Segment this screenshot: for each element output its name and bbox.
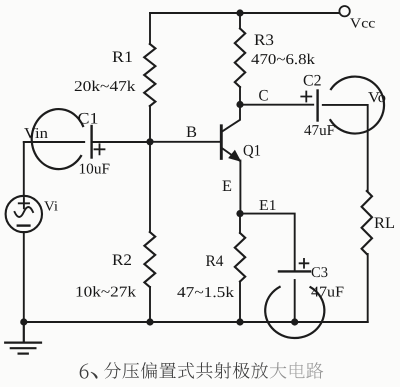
svg-text:RL: RL: [374, 215, 395, 232]
svg-text:Q1: Q1: [243, 143, 261, 160]
wire node E1 to C3 branch: [240, 214, 295, 271]
node ground-left junction: [20, 318, 27, 325]
annotation circle around C3: [265, 287, 324, 338]
capacitor C3 plate: [279, 270, 310, 272]
caption: 6、分压偏置式共射极放大电路: [80, 362, 324, 379]
wire C1 right lead to node B: [93, 141, 150, 143]
svg-text:47~1.5k: 47~1.5k: [177, 285, 235, 301]
resistor R3: [235, 29, 245, 88]
node E1 junction: [236, 210, 243, 217]
wire Vi source to ground rail: [23, 232, 25, 322]
svg-text:47uF: 47uF: [311, 285, 344, 301]
wire top rail Vcc: [150, 12, 339, 14]
annotation circle around C1/Vin: [32, 109, 83, 169]
node B junction: [146, 138, 153, 145]
transistor Q1 collector stroke: [222, 106, 240, 132]
svg-text:Vin: Vin: [24, 126, 49, 142]
svg-text:10uF: 10uF: [79, 162, 111, 178]
wire R4 top lead: [239, 214, 241, 233]
svg-text:C2: C2: [303, 73, 322, 90]
wire R1 branch top: [149, 13, 151, 44]
C2 polarity plus: [301, 92, 311, 102]
node junction top (R3/Vcc): [236, 9, 243, 16]
wire Vin source lead down: [23, 142, 25, 197]
svg-text:E1: E1: [259, 198, 277, 214]
wire RL bottom lead: [367, 254, 369, 322]
ground symbol: [5, 322, 41, 354]
svg-text:470~6.8k: 470~6.8k: [251, 52, 316, 68]
wire node C to C2 left plate: [240, 104, 313, 106]
svg-text:C: C: [259, 88, 269, 105]
wire C2 right lead to output corner: [323, 105, 368, 191]
svg-text:R2: R2: [112, 252, 132, 269]
wire R3 bottom to node C: [239, 87, 241, 105]
AC source Vi circle: [6, 196, 42, 232]
wire C3 bottom lead: [294, 280, 296, 322]
resistor R2: [144, 232, 155, 287]
svg-text:R1: R1: [112, 49, 133, 66]
svg-text:C1: C1: [78, 111, 99, 128]
wire emitter down to node E1: [239, 161, 241, 214]
Vcc terminal circle: [339, 6, 349, 16]
annotation circle around C2/Vo: [330, 77, 384, 134]
svg-text:R3: R3: [254, 32, 274, 49]
svg-text:Vcc: Vcc: [350, 17, 376, 32]
transistor Q1 emitter stroke: [222, 148, 240, 160]
node R4 bottom junction: [236, 318, 243, 325]
svg-text:E: E: [222, 178, 232, 195]
resistor RL: [362, 191, 372, 254]
Vi sine squiggle: [15, 207, 33, 217]
svg-text:Vo: Vo: [368, 90, 386, 106]
C3 polarity plus: [300, 259, 309, 268]
svg-text:R4: R4: [206, 253, 224, 270]
wire R3 branch top: [239, 13, 241, 29]
svg-text:Vi: Vi: [44, 200, 58, 215]
svg-text:47uF: 47uF: [304, 123, 335, 139]
capacitor C2 plate: [316, 91, 318, 121]
capacitor C1 plate: [90, 126, 92, 158]
wire R4 bottom lead: [239, 282, 241, 323]
wire R2 branch top: [149, 142, 151, 232]
wire bottom ground rail: [24, 321, 368, 323]
node R2 bottom junction: [146, 318, 153, 325]
wire R1 branch bottom to node B: [149, 106, 151, 142]
resistor R4: [235, 233, 245, 282]
wire base: node B to Q1 base: [150, 141, 220, 143]
C1 polarity plus: [95, 144, 105, 154]
svg-text:C3: C3: [311, 265, 328, 281]
Vi minus sign: [18, 224, 30, 226]
wire R2 branch bottom: [149, 287, 151, 322]
svg-text:10k~27k: 10k~27k: [75, 285, 137, 301]
node C3 bottom junction: [291, 318, 298, 325]
transistor Q1 emitter arrow: [229, 151, 240, 161]
svg-text:B: B: [186, 124, 197, 141]
node C junction: [236, 101, 243, 108]
transistor Q1 base bar: [220, 126, 223, 159]
Vi plus sign: [19, 198, 29, 208]
svg-text:20k~47k: 20k~47k: [74, 79, 136, 95]
wire input left segment (C1 left lead): [24, 141, 84, 143]
resistor R1: [144, 44, 155, 106]
